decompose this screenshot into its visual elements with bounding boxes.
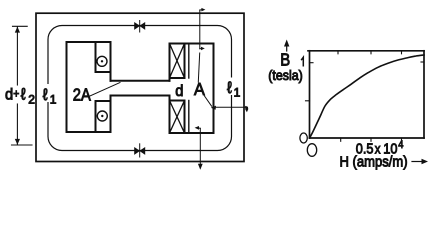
dot symbol of lower-left coil box — [97, 111, 107, 121]
svg-text:1: 1 — [234, 86, 241, 100]
svg-text:ℓ: ℓ — [21, 86, 26, 104]
label 0.5x10^4 on H axis — [356, 139, 404, 156]
leader from label A to width dimension line at right window — [205, 96, 249, 112]
dimension line d+l2 at far left with end ticks and arrowheads — [12, 26, 33, 145]
svg-text:A: A — [194, 79, 205, 99]
svg-text:2A: 2A — [73, 85, 91, 104]
coil cross-section box upper-right (current into page) — [170, 44, 185, 79]
svg-text:H (amps/m): H (amps/m) — [340, 152, 408, 169]
center bar of H core (cross-section 2A) — [111, 81, 170, 96]
label O at origin (B axis zero) — [300, 133, 307, 143]
label 0 on H axis — [307, 144, 316, 157]
svg-text:d: d — [5, 86, 13, 104]
svg-text:ℓ: ℓ — [227, 79, 232, 97]
svg-text:4: 4 — [398, 139, 403, 151]
label l1 on left flux path — [43, 86, 57, 106]
mean flux path (rounded rectangle) — [48, 26, 232, 151]
label d+l2 (total height dimension) — [5, 86, 35, 107]
X markings of upper-right coil box — [170, 44, 185, 79]
B axis direction arrow — [284, 40, 289, 52]
flux direction marker on bottom flux path (facing arrowheads with tick) — [135, 144, 145, 157]
coil cross-section box lower-right (current into page) — [170, 101, 185, 134]
X markings of lower-right coil box — [170, 101, 185, 134]
label 1 on B axis — [302, 57, 304, 66]
coil cross-section box lower-left (current out of page) — [96, 101, 111, 132]
svg-text:d: d — [175, 82, 183, 100]
B-H magnetization curve — [310, 55, 424, 138]
graph tick marks — [306, 51, 425, 142]
flux direction marker on top flux path (facing arrowheads with tick) — [135, 21, 145, 33]
leader line from label 2A to center bar — [90, 83, 120, 97]
label l1 on right flux path — [227, 79, 241, 99]
vertical marker line through bottom of right leg with arrows — [195, 126, 203, 170]
B-H graph axes box — [308, 51, 424, 138]
svg-text:1: 1 — [50, 93, 57, 107]
svg-text:2: 2 — [28, 93, 35, 107]
svg-text:(tesla): (tesla) — [268, 68, 303, 84]
left leg of H-shaped center core — [67, 42, 111, 132]
svg-text:ℓ: ℓ — [43, 86, 48, 104]
coil cross-section box upper-left (current out of page) — [96, 42, 111, 72]
svg-text:+: + — [13, 88, 19, 101]
right leg of H-shaped center core (cross-section A, gap d) — [170, 44, 214, 134]
H axis direction arrow — [412, 159, 428, 164]
core outer boundary (rectangular yoke) — [36, 13, 244, 161]
leader line from label A upward through core top with hooked arrows — [198, 8, 205, 82]
dot symbol of upper-left coil box — [97, 56, 107, 66]
right leg inner edge lines — [188, 44, 190, 133]
